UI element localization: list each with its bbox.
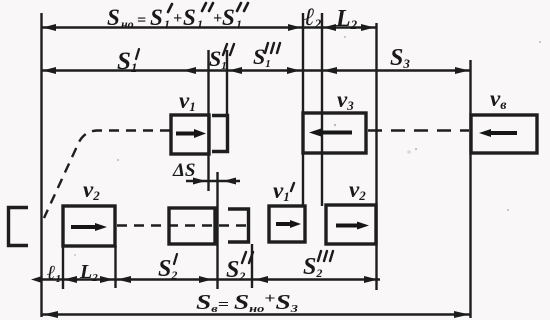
arrow S3 left [323,67,337,74]
arrow in V1' (right) [276,222,293,226]
extension line x376 [375,23,377,290]
arrow L2top right [361,24,375,31]
arrow S3 right [455,67,469,74]
arrow l1 outside-left [31,276,42,283]
wire dashed centerline row2 [117,224,251,226]
extension line x115 [114,246,116,288]
dimension line top Sno/l2/L2 [42,26,377,28]
arrow S1''' right [287,67,300,74]
arrow S1''' left [229,67,243,74]
arrow in V1 (right) [176,132,197,136]
dimension line deltaS [186,180,240,182]
extension line x470 [469,60,471,318]
arrow dS right [223,178,236,185]
dimension line Sv bottom [42,313,471,315]
extension line x227 [226,50,228,116]
arrow L2bot left [64,276,78,283]
arrow in V2 right (right) [336,224,360,228]
dimension arrowheads [31,24,470,318]
arrow in V2 left (right) [71,225,98,229]
box V1' [269,206,305,242]
wire dashed centerline into V1 [44,131,170,219]
dimension line l1/L2/S2 [42,278,381,280]
box V0 [471,115,537,153]
bracket far-left open-right [9,208,29,246]
arrow Sno right [288,24,301,31]
arrow Sno left [43,24,57,31]
arrow S2''' right [364,276,378,283]
box middle row2 [169,208,215,244]
extension line x303 [302,13,304,206]
arrow Sv right [454,311,470,318]
prime ticks of formula [168,3,248,12]
extension line x322 [321,13,323,206]
svg-text:ΔS: ΔS [172,160,195,181]
box V1 [171,115,209,154]
arrow dS left [193,178,206,185]
arrow S2' right [199,276,212,283]
dashed path row1 [44,131,469,226]
extension line x252 [251,244,253,288]
arrow S2' left [117,276,131,283]
scan speckles [74,36,541,256]
arrow in V3 (left) [317,131,352,135]
dimension line S1'/S1''/S1'''/S3 [42,69,471,71]
bracket row2 open-left [228,209,249,242]
extension line left x41 [40,13,42,317]
arrow Sv left [43,311,58,318]
arrow S1' left [43,67,57,74]
extension line x217 [216,172,218,289]
box V2 left [63,206,115,246]
box V3 [303,113,366,153]
extension line x208 [207,50,209,191]
arrow S2''' left [255,276,268,283]
arrow L2top left [323,24,336,31]
thick arrows inside boxes [71,129,517,232]
arrow L2bot right [100,276,114,283]
arrow in V0 (left) [487,131,517,135]
wire dashed centerline V3 to V0 [368,129,469,131]
extension line x63 below V2 [62,246,64,289]
bracket row1 open-left [212,116,228,152]
arrow S1' right blob [183,67,196,74]
box V2 right [326,205,376,244]
